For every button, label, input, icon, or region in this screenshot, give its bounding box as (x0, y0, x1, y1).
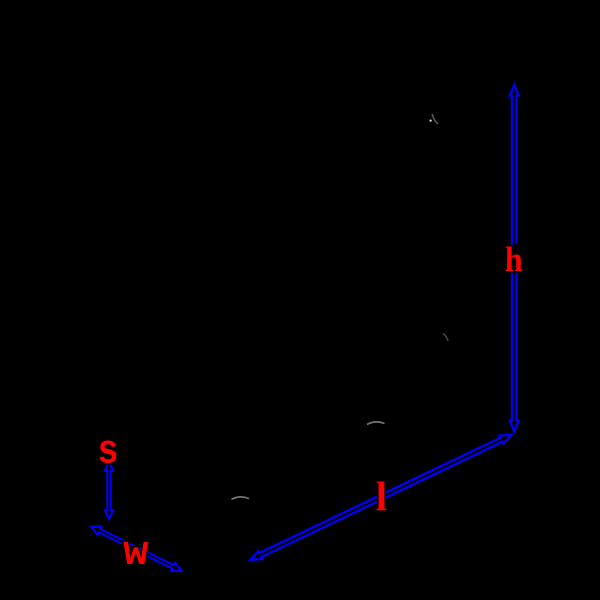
svg-text:l: l (376, 473, 387, 519)
faint arc mid right (443, 334, 448, 342)
svg-text:h: h (505, 241, 523, 280)
faint shell arc lower left (232, 497, 250, 499)
faint shell arc center (367, 422, 385, 425)
black gap over shaft right of h label (515, 244, 520, 255)
dimension arrow l (diagonal double arrow) (251, 435, 512, 560)
fish eye dot (430, 120, 432, 122)
svg-text:s: s (98, 427, 117, 472)
svg-text:w: w (123, 529, 148, 577)
dimension arrow w (diagonal double arrow) (91, 527, 182, 572)
dimension arrow s (small vertical double arrow) (105, 462, 113, 519)
dimension arrow h (vertical double arrow) (510, 85, 519, 432)
faint tank remnant arc near top (fish highlight) (432, 114, 438, 124)
